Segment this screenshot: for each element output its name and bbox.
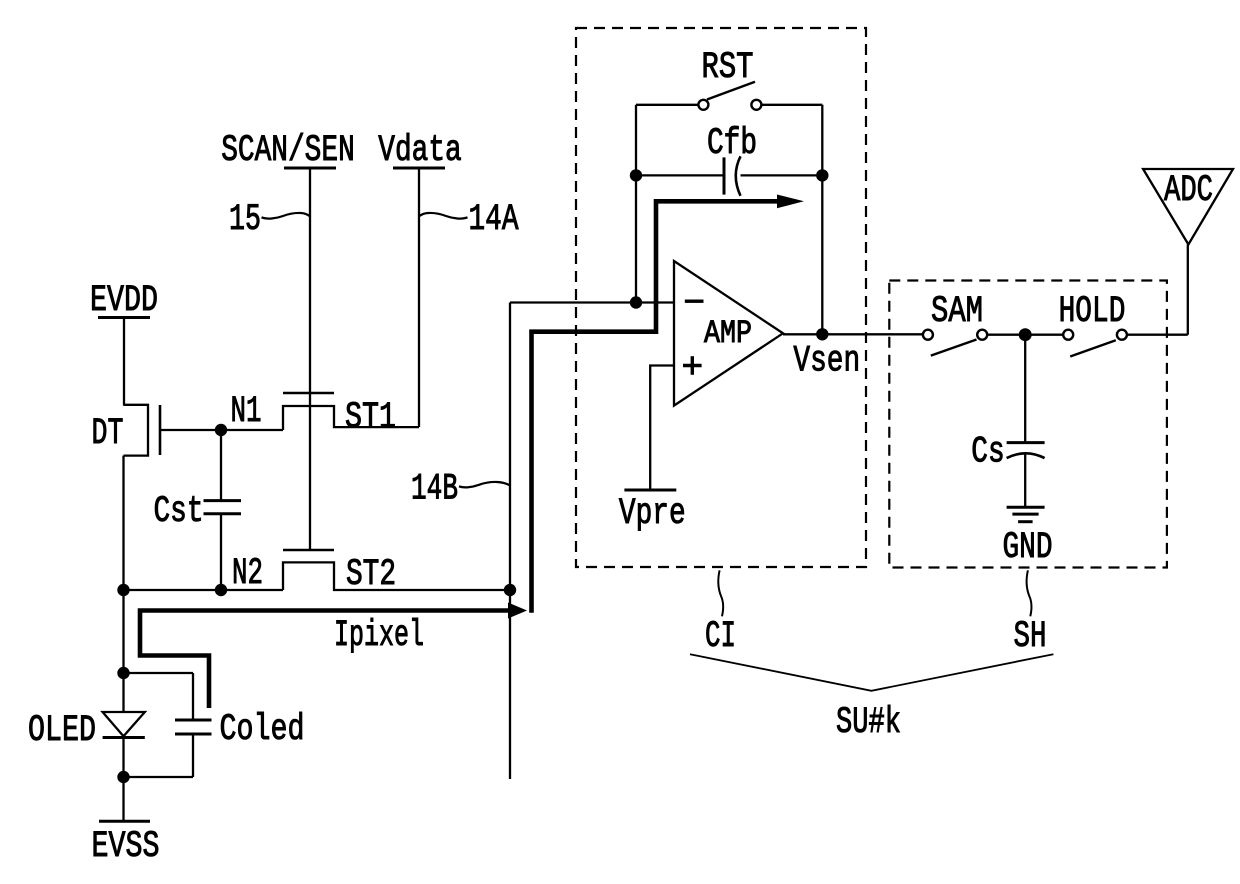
wire N2 rail	[124, 589, 284, 591]
leader squiggle 15	[262, 213, 311, 219]
junction dot N1	[215, 424, 227, 436]
wire SCAN gate line to ST1/ST2 gates	[309, 168, 311, 550]
wire plus input to Vpre	[650, 366, 674, 491]
capacitor Cfb flat plate	[723, 157, 726, 194]
transistor DT channel	[124, 405, 149, 456]
wire SAM to storage node	[987, 334, 1025, 336]
wire Cfb right to output	[821, 175, 823, 334]
svg-text:AMP: AMP	[704, 315, 752, 352]
svg-text:EVDD: EVDD	[90, 280, 158, 322]
terminal bar SCAN/SEN	[284, 167, 336, 170]
switch SAM contacts	[923, 330, 933, 340]
switch RST blade	[707, 82, 755, 100]
switch HOLD	[1025, 291, 1188, 357]
terminal Vpre	[619, 366, 686, 536]
label 14B with leader squiggle	[411, 469, 510, 511]
label 15 with leader squiggle	[229, 199, 310, 241]
leader squiggle SH	[1027, 570, 1032, 616]
svg-text:Vpre: Vpre	[619, 493, 686, 535]
wire thick feedback current path	[532, 201, 781, 613]
wire Cfb left lead	[636, 174, 724, 176]
svg-text:RST: RST	[702, 47, 754, 89]
wire inverting input	[510, 175, 674, 308]
wire Coled bottom to cathode	[192, 734, 194, 777]
svg-text:Cst: Cst	[153, 491, 203, 533]
transistor ST2 channel and leads	[283, 562, 510, 590]
wire DT source down to N2 rail	[122, 456, 124, 591]
capacitor Cs curved plate	[1007, 453, 1045, 458]
svg-text:DT: DT	[92, 413, 124, 455]
switch RST	[636, 47, 822, 175]
capacitor Cs	[971, 335, 1044, 508]
brace SU#k	[690, 654, 1053, 744]
svg-text:15: 15	[229, 199, 261, 241]
power EVSS terminal	[92, 777, 160, 868]
diode OLED cathode bar	[103, 736, 145, 739]
wire RST left drop	[635, 105, 637, 176]
pin plus input marker	[683, 364, 702, 367]
wire N1 to ST1 source	[221, 429, 283, 431]
transistor DT	[92, 405, 222, 591]
block ADC triangle	[1143, 169, 1233, 245]
junction dot OLED anode	[117, 667, 129, 679]
junction dot inverting input	[630, 296, 642, 308]
wire sense line to inverting input	[510, 301, 674, 303]
svg-text:SCAN/SEN: SCAN/SEN	[221, 130, 355, 172]
wire Cfb left to inverting input	[635, 175, 637, 302]
junction dot OLED cathode	[117, 771, 129, 783]
label CI with leader squiggle	[705, 570, 736, 658]
net Vdata terminal	[378, 130, 462, 427]
svg-text:ST1: ST1	[345, 397, 396, 439]
svg-text:Cfb: Cfb	[707, 123, 757, 165]
terminal bar EVDD	[98, 316, 150, 319]
wire storage node to Cs	[1024, 335, 1026, 443]
net SCAN/SEN terminal	[221, 130, 355, 550]
pin minus input marker	[685, 300, 704, 303]
switch HOLD contacts	[1063, 330, 1073, 340]
switch SAM	[923, 291, 1025, 356]
transistor ST1 gate bar	[283, 392, 334, 395]
wire HOLD to ADC	[1127, 334, 1188, 336]
transistor ST1	[283, 393, 419, 439]
wire Cst bottom plate to N2	[220, 514, 222, 590]
svg-text:SH: SH	[1014, 616, 1047, 658]
wire up to ADC	[1187, 245, 1189, 335]
diode OLED triangle	[103, 712, 145, 736]
dashed box CI	[576, 28, 866, 567]
junction dot Vsen output	[816, 328, 828, 340]
svg-text:GND: GND	[1002, 527, 1052, 569]
capacitor Coled plates	[175, 719, 212, 722]
capacitor Cst plates	[204, 499, 242, 502]
wire RST left	[636, 104, 698, 106]
wire OLED cathode down	[122, 738, 124, 778]
leader squiggle 14B	[459, 482, 510, 487]
capacitor Cfb curved plate	[736, 156, 741, 196]
brace lines to SU#k	[690, 654, 1053, 691]
node storage junction	[1019, 328, 1032, 341]
switch SAM blade	[931, 340, 977, 356]
diode OLED	[28, 590, 145, 783]
capacitor Cfb	[630, 123, 829, 196]
wire Cfb right lead	[741, 174, 823, 176]
svg-text:OLED: OLED	[28, 710, 96, 752]
svg-text:SAM: SAM	[931, 291, 983, 333]
transistor DT gate bar	[159, 405, 162, 455]
transistor ST2 gate bar	[283, 549, 334, 552]
block ADC	[1143, 169, 1233, 335]
svg-text:Vsen: Vsen	[793, 341, 860, 383]
switch RST contacts	[698, 100, 708, 110]
transistor ST1 channel and leads	[283, 406, 419, 430]
label SH with leader squiggle	[1014, 570, 1047, 658]
wire DT gate to N1	[160, 429, 221, 431]
switch HOLD blade	[1070, 340, 1116, 356]
leader squiggle 14A	[419, 213, 468, 219]
svg-text:Coled: Coled	[220, 709, 305, 751]
wire cathode to EVSS	[122, 777, 124, 821]
svg-text:Vdata: Vdata	[378, 130, 462, 172]
dashed box SH	[889, 281, 1167, 568]
junction dot Cfb right	[816, 169, 828, 181]
svg-text:14B: 14B	[411, 469, 458, 511]
junction dot ST2 drain on sense line	[504, 584, 516, 596]
power EVDD terminal	[90, 280, 158, 406]
junction dot N2 rail left	[117, 584, 129, 596]
svg-text:ADC: ADC	[1164, 170, 1213, 212]
wire RST right drop	[821, 105, 823, 176]
terminal bar Vpre	[624, 489, 676, 492]
transistor ST2	[283, 550, 510, 596]
wire sense line 14B	[504, 303, 516, 780]
svg-text:SU#k: SU#k	[836, 702, 901, 744]
arrowhead Ipixel	[508, 603, 527, 619]
capacitor Cs flat plate	[1007, 441, 1045, 444]
capacitor Coled	[124, 673, 305, 777]
svg-text:HOLD: HOLD	[1059, 291, 1126, 333]
svg-text:N1: N1	[231, 391, 262, 433]
op-amp U1 AMP	[674, 261, 783, 406]
node N2	[117, 553, 283, 596]
ground GND	[1002, 507, 1052, 569]
terminal bar EVSS	[99, 820, 150, 823]
wire anode to Coled top	[124, 672, 194, 674]
wire EVDD to DT drain	[123, 318, 125, 406]
svg-text:EVSS: EVSS	[92, 826, 160, 868]
wire AMP output to SAM	[783, 333, 923, 335]
svg-text:14A: 14A	[469, 199, 520, 241]
wire sense column 14B vertical	[509, 303, 511, 780]
wire RST right	[762, 104, 822, 106]
wire storage node to HOLD	[1025, 334, 1063, 336]
svg-text:Cs: Cs	[971, 432, 1004, 474]
svg-text:Ipixel: Ipixel	[334, 615, 424, 657]
svg-text:CI: CI	[705, 616, 736, 658]
node Vsen output	[783, 175, 923, 382]
ground symbol bars	[1007, 506, 1045, 509]
capacitor Cst	[153, 430, 241, 590]
op-amp AMP triangle	[674, 261, 783, 406]
terminal bar Vdata	[393, 167, 445, 170]
wire N2 rail to OLED anode	[122, 590, 124, 713]
arrowhead feedback	[777, 195, 804, 209]
label 14A with leader squiggle	[419, 199, 519, 241]
wire Ipixel thick current path	[140, 611, 509, 709]
wire thick feedback path with arrow	[532, 195, 805, 613]
wire Cs to ground	[1024, 453, 1026, 507]
junction dot Cfb left	[630, 169, 642, 181]
wire Ipixel thick current path with arrow	[140, 603, 527, 709]
wire Vdata column line	[418, 168, 420, 427]
junction dot N2	[215, 584, 227, 596]
leader squiggle CI	[718, 570, 723, 616]
svg-text:N2: N2	[232, 553, 263, 595]
node N1	[215, 391, 283, 436]
wire N1 to Cst top plate	[220, 430, 222, 501]
